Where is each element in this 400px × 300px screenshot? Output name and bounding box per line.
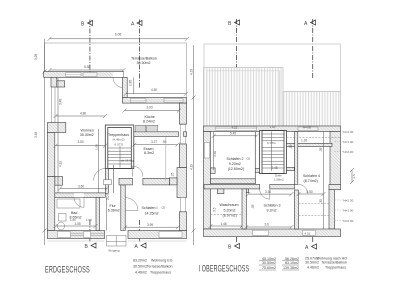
svg-text:4.25: 4.25: [232, 126, 238, 130]
svg-text:Flur: Flur: [110, 204, 117, 208]
EG left wall lower: [47, 177, 54, 231]
OG section marker A bottom: [305, 244, 317, 251]
svg-text:(8.74m2): (8.74m2): [304, 179, 318, 183]
svg-text:1.85: 1.85: [129, 80, 133, 86]
dimension 5.38 (terrace bottom): [48, 68, 126, 72]
svg-text:9.20m2: 9.20m2: [229, 162, 241, 166]
sum underlines OG table: [259, 261, 299, 270]
Treppenhaus labels: [108, 133, 134, 163]
corridor wall line: [112, 165, 114, 193]
svg-text:.35: .35: [319, 199, 323, 204]
attic wall above Schlafen 4: [287, 143, 333, 146]
svg-text:H=2.30: H=2.30: [344, 199, 354, 203]
dimension 4.50 (upper terrace strip): [124, 92, 188, 96]
pier on OG left wall: [211, 168, 216, 174]
svg-text:.55: .55: [289, 144, 293, 149]
svg-text:(8.97m2): (8.97m2): [223, 214, 237, 218]
wall Bad/Flur: [96, 197, 100, 230]
svg-text:Bad: Bad: [71, 211, 77, 215]
Schlafen 3 top wall: [270, 184, 295, 189]
svg-text:3.30: 3.30: [265, 190, 271, 194]
svg-text:(2): (2): [162, 206, 166, 210]
svg-text:8.3m2: 8.3m2: [144, 151, 154, 155]
svg-text:Küche: Küche: [145, 115, 155, 119]
svg-text:Terrasse/Balkon: Terrasse/Balkon: [131, 57, 157, 61]
svg-text:Treppenhaus: Treppenhaus: [108, 133, 129, 137]
svg-text:H=1.00: H=1.00: [344, 140, 354, 144]
svg-text:83.10m2: 83.10m2: [285, 261, 299, 265]
west window band: [51, 87, 55, 123]
dimension 4.80 Wohnen: [54, 114, 108, 118]
section marker B top: [81, 21, 93, 28]
Waschraum labels: [220, 203, 239, 218]
svg-text:3.60: 3.60: [78, 184, 84, 188]
OG left wall: [204, 132, 211, 230]
svg-text:56.26m2: 56.26m2: [285, 257, 299, 261]
svg-text:6.36m2: 6.36m2: [108, 209, 120, 213]
svg-text:Terrasse/Balkon: Terrasse/Balkon: [147, 265, 173, 269]
wall Essen bottom / Schlafen I top: [119, 178, 132, 185]
washbasin: [59, 214, 67, 222]
svg-text:3.6: 3.6: [265, 223, 270, 227]
svg-text:45.10m2: 45.10m2: [262, 257, 276, 261]
kitchen labels: [143, 115, 155, 124]
section line A-A (OG): [312, 19, 314, 243]
svg-text:4.50: 4.50: [151, 88, 157, 92]
section marker A top: [131, 21, 142, 28]
roof edge dashed line: [287, 137, 341, 139]
svg-text:Wohnung EG: Wohnung EG: [151, 259, 173, 263]
svg-text:3.93: 3.93: [147, 106, 153, 110]
dimension 6.06 (top): [48, 37, 190, 41]
OG right wall upper: [330, 132, 341, 185]
door to Bad: [74, 193, 84, 197]
svg-text:1.26: 1.26: [301, 139, 307, 143]
Essen labels: [144, 147, 155, 155]
dimension 3.30 Schlafen 3: [246, 192, 293, 196]
wall Diele / Schlafen 4: [295, 132, 298, 185]
svg-text:4.46m2: 4.46m2: [307, 266, 319, 270]
dimension 3.55 Bad: [54, 224, 98, 228]
svg-text:ab 15 Stg: ab 15 Stg: [121, 159, 134, 163]
svg-text:139.36m2: 139.36m2: [283, 266, 299, 270]
svg-text:3.55: 3.55: [75, 222, 81, 226]
stair landing line: [255, 169, 294, 171]
svg-text:Schlafen 3: Schlafen 3: [264, 203, 281, 207]
Bad labels: [70, 211, 82, 220]
kitchen east window: [180, 125, 185, 145]
bottom wall window right: [303, 230, 316, 235]
left wall pillar block: [47, 123, 65, 133]
svg-text:3.48: 3.48: [34, 132, 38, 138]
door Flur/Schlafen I: [125, 198, 138, 211]
dimension 3.27 / .95 Essen: [132, 143, 179, 147]
Schlafen 2 labels: [227, 156, 251, 171]
terrace outline: [45, 43, 187, 98]
left wall pier (at Bad wall): [55, 177, 63, 186]
wall corridor / Waschraum (continuous): [204, 184, 260, 189]
OG top wall: [204, 126, 341, 132]
svg-text:8.65m2: 8.65m2: [70, 216, 82, 220]
svg-text:2.5: 2.5: [352, 174, 356, 179]
svg-text:1.56: 1.56: [86, 218, 92, 222]
svg-text:4.80: 4.80: [80, 112, 86, 116]
stairs EG: [108, 146, 132, 168]
Schlafen 3 labels: [264, 203, 281, 212]
svg-text:35.30m2: 35.30m2: [80, 133, 94, 137]
dimension line left side: [43, 39, 47, 245]
right mid bracket dim: [350, 168, 354, 184]
svg-text:1.08: 1.08: [95, 144, 99, 150]
svg-text:4.46m2: 4.46m2: [135, 271, 147, 275]
svg-text:5.45: 5.45: [230, 131, 236, 135]
svg-text:1.10: 1.10: [270, 125, 276, 129]
OG right wall step: [329, 184, 341, 189]
section line B-B (EG top): [89, 20, 91, 242]
Flur labels: [108, 204, 120, 213]
door Diele/Schlafen 4: [299, 185, 308, 194]
Schlafen I east window: [180, 198, 185, 212]
svg-text:30.30m2: 30.30m2: [137, 61, 151, 65]
wall Essen/Schlafen I (right part): [169, 178, 177, 185]
Waschraum sloped ceiling dashed line: [211, 214, 243, 216]
shaft: [104, 180, 112, 185]
dimension 4.33 (right of terrace): [192, 45, 196, 245]
Schlafen 4 sloped ceiling dashes: [299, 203, 330, 205]
WC: [58, 222, 65, 230]
svg-text:H=1.00: H=1.00: [344, 209, 354, 213]
OG section marker A top: [304, 20, 316, 27]
dimension 3.50 Schlafen 4: [297, 192, 326, 196]
svg-text:3.50: 3.50: [307, 190, 313, 194]
NE corner wall (connects top wall to kitchen wall): [122, 77, 127, 97]
roof terrace hatch left: [204, 68, 284, 127]
svg-text:1.08m2: 1.08m2: [274, 178, 284, 182]
svg-text:83.20m2: 83.20m2: [133, 259, 147, 263]
svg-text:8.24m2: 8.24m2: [143, 120, 155, 124]
dimension 3.99 Schlafen I: [123, 225, 180, 229]
svg-text:Treppenhaus: Treppenhaus: [150, 271, 171, 275]
plinth line below bottom wall: [48, 240, 105, 242]
svg-text:H=2.30: H=2.30: [344, 150, 354, 154]
closet wall line: [254, 132, 256, 184]
dimension 3.16 Schlafen 3 bottom: [244, 225, 293, 229]
section line B-B (OG): [236, 19, 238, 243]
svg-text:(2): (2): [247, 156, 251, 160]
svg-text:Eingang: Eingang: [109, 249, 120, 253]
roof outline (floor below): [204, 44, 341, 92]
OG left wall window: [204, 143, 209, 159]
svg-text:ERDGESCHOSS: ERDGESCHOSS: [45, 264, 90, 275]
glass partition Essen: [165, 136, 167, 181]
Schlafen 4 vertical dim: [323, 132, 325, 230]
wall Flur/Schlafen I: [121, 185, 125, 231]
dimension 1.46 Waschraum: [209, 224, 245, 228]
svg-text:5.20m2: 5.20m2: [224, 208, 236, 212]
terrace label: [131, 57, 157, 66]
svg-text:1.46: 1.46: [221, 222, 227, 226]
svg-text:3.28: 3.28: [34, 54, 38, 60]
kitchen bottom wall: [134, 132, 179, 137]
door to Essen: [132, 166, 143, 177]
Wohnen vertical dim: [57, 78, 59, 193]
svg-text:3.48: 3.48: [59, 99, 63, 105]
svg-text:30.50m2: 30.50m2: [133, 265, 147, 269]
stair hall wall (x105) with door to Wohnen: [105, 169, 108, 194]
Schlafen I labels: [142, 206, 166, 216]
EG right wall mid: [179, 144, 186, 168]
svg-text:.25: .25: [171, 172, 175, 177]
roof terrace hatch right: [283, 92, 341, 127]
svg-text:3.50: 3.50: [213, 151, 217, 157]
stairs OG treads: [262, 132, 284, 172]
svg-text:75.60m2: 75.60m2: [262, 266, 276, 270]
Wohnen labels: [80, 128, 94, 137]
Bad fixtures: bathtub: [57, 199, 80, 208]
EG right wall wide section: [177, 168, 187, 198]
svg-text:3.50: 3.50: [78, 140, 84, 144]
section line A-A (EG): [138, 20, 140, 242]
svg-text:4.19: 4.19: [59, 161, 63, 167]
svg-text:Wohnen: Wohnen: [81, 128, 94, 132]
svg-text:Terrasse/Balkon: Terrasse/Balkon: [321, 261, 347, 265]
svg-text:6 STG: 6 STG: [267, 141, 276, 145]
OG bottom wall: [204, 229, 341, 237]
svg-text:Waschraum: Waschraum: [220, 203, 239, 207]
svg-text:30.50m2: 30.50m2: [305, 261, 319, 265]
kitchen top wall: [122, 98, 186, 104]
svg-text:H=2.30: H=2.30: [344, 219, 354, 223]
dimension 3.50 Wohnen: [54, 144, 108, 148]
svg-text:Schlafen 2: Schlafen 2: [227, 157, 244, 161]
svg-text:3.99: 3.99: [147, 223, 153, 227]
terrace door swing: [113, 77, 123, 87]
OG section marker B top: [228, 20, 240, 27]
section marker B bottom: [85, 243, 97, 250]
Treppenhaus box: [105, 125, 134, 169]
svg-text:.35: .35: [319, 147, 323, 152]
svg-text:.35: .35: [251, 204, 255, 209]
door to Schlafen 3: [260, 189, 270, 199]
wall Schlafen 2 south: [211, 179, 256, 184]
svg-text:2.07: 2.07: [106, 194, 110, 200]
Schlafen 4 labels: [303, 174, 320, 183]
EG bottom wall: [47, 231, 186, 239]
stairwell OG: [260, 131, 287, 174]
svg-text:5.38: 5.38: [84, 65, 90, 69]
svg-text:4.19: 4.19: [190, 164, 194, 170]
svg-text:Wohnung nach HO: Wohnung nach HO: [317, 256, 348, 260]
bottom wall window left: [253, 230, 269, 235]
Bad/Flur top wall: [55, 193, 106, 197]
entrance recess: [107, 236, 127, 247]
svg-text:6.06: 6.06: [115, 33, 121, 37]
svg-text:4.51: 4.51: [305, 231, 311, 235]
kitchen counter: [136, 125, 158, 132]
svg-text:Schlafen I: Schlafen I: [142, 206, 158, 210]
door pier right: [243, 189, 249, 193]
door Wohnen/stair hall: [94, 169, 106, 181]
EG left wall upper block: [51, 77, 57, 87]
EG top wall: [44, 72, 124, 78]
stair west dim line: [98, 129, 100, 193]
section marker A bottom: [135, 243, 147, 250]
dimension 5.45 Schlafen 2: [212, 132, 259, 171]
svg-text:2.45: 2.45: [272, 166, 278, 170]
svg-text:30.50m2: 30.50m2: [262, 261, 276, 265]
EG left wall mid: [47, 133, 54, 177]
EG area table: [133, 259, 173, 275]
OG right wall lower: [329, 190, 335, 229]
svg-text:6 STG: 6 STG: [115, 142, 124, 146]
dimension 3.60 above Bad: [58, 187, 109, 191]
wall Waschraum / Schlafen 3: [242, 189, 246, 229]
OG section marker B bottom: [228, 244, 240, 251]
svg-text:(12.60m2): (12.60m2): [228, 167, 244, 171]
svg-text:H=UB: H=UB: [303, 126, 311, 130]
EG right wall upper (kitchen): [179, 103, 186, 124]
svg-text:3.5: 3.5: [213, 207, 217, 212]
svg-text:H=2.30: H=2.30: [344, 130, 354, 134]
svg-text:14.25m2: 14.25m2: [145, 212, 159, 216]
svg-text:I OBERGESCHOSS: I OBERGESCHOSS: [199, 263, 250, 274]
svg-text:9.2m2: 9.2m2: [267, 208, 277, 212]
svg-text:Treppenhaus: Treppenhaus: [325, 266, 346, 270]
svg-text:3.27: 3.27: [151, 140, 157, 144]
dimension 3.93 kitchen: [123, 109, 182, 113]
pier at left wall: [57, 81, 65, 87]
svg-text:(4.46m2): (4.46m2): [113, 138, 125, 142]
svg-text:Schlafen 4: Schlafen 4: [303, 174, 320, 178]
roof height labels right side: [335, 132, 346, 221]
Diele labels: [274, 174, 284, 182]
OG area table: [262, 256, 347, 270]
svg-text:4.33: 4.33: [190, 69, 194, 75]
door pier left: [217, 189, 224, 194]
